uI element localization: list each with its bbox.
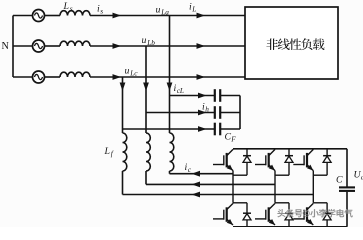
svg-text:N: N	[2, 41, 10, 52]
igbt S6 collector	[307, 203, 313, 209]
svg-text:s: s	[70, 4, 73, 13]
svg-text:L: L	[63, 1, 69, 12]
current arrow is (phase c)	[113, 74, 122, 80]
wire branch b to CF	[146, 112, 214, 114]
wire phase b: source to Ls	[45, 45, 61, 47]
igbt S4 gate bar	[223, 210, 225, 220]
wire Lf a to inverter leg 1	[169, 171, 171, 174]
wire tap phase b down	[145, 46, 147, 133]
wire branch a to CF	[170, 95, 215, 97]
diode D3 (freewheel, upper leg 3)	[326, 149, 328, 175]
igbt S1 collector	[227, 149, 233, 155]
wire dc positive rail	[233, 148, 347, 150]
igbt S2 emitter with arrow	[269, 165, 275, 171]
svg-text:h: h	[205, 104, 209, 113]
wire diode D3 to leg 3	[313, 174, 327, 176]
igbt S3 collector	[307, 149, 313, 155]
current arrow ic (line 2)	[192, 182, 201, 188]
wire dc bus below capacitor	[346, 192, 348, 227]
inductor Ls (phase a)	[60, 11, 90, 16]
wire phase a: source to Ls	[45, 15, 61, 17]
igbt S5 body bar	[268, 207, 270, 222]
inductor Lf (phase c)	[123, 133, 127, 171]
current arrow ih	[198, 110, 207, 116]
ac source Vb	[13, 45, 33, 47]
wire phase a: Ls to load box	[90, 15, 245, 17]
node N (neutral bus)	[12, 16, 14, 78]
igbt S2 gate bar	[265, 155, 267, 165]
current arrow (phase c tap)	[120, 83, 126, 92]
current arrow icL (phase a tap)	[167, 83, 173, 92]
capacitor C (dc link)	[339, 186, 355, 188]
diode D2 (freewheel, upper leg 2)	[288, 149, 290, 175]
igbt S4 emitter with arrow	[227, 219, 233, 225]
wire diode D1 to leg 1	[233, 174, 247, 176]
wire leg 1 vertical	[232, 171, 234, 203]
igbt S6 gate lead	[293, 218, 304, 220]
svg-text:Lb: Lb	[146, 38, 155, 47]
inductor Ls (phase b)	[60, 41, 90, 46]
igbt S5 collector	[269, 203, 275, 209]
igbt S3 body bar	[306, 153, 308, 168]
igbt S4 gate lead	[213, 218, 224, 220]
svg-text:La: La	[160, 8, 169, 17]
svg-text:L: L	[191, 4, 196, 13]
current arrow ic (line 1)	[192, 171, 201, 177]
diode D1 (freewheel, upper leg 1)	[246, 149, 248, 175]
svg-text:L: L	[104, 146, 110, 157]
current arrow into CF (c)	[198, 126, 207, 132]
wire phase c: source to Ls	[45, 76, 61, 78]
wire Lf b to inverter leg 2	[145, 171, 147, 184]
wire CF b to star point	[221, 112, 240, 114]
current arrow iL (phase a)	[197, 13, 206, 19]
wire leg 2 lower elbow	[275, 202, 289, 204]
svg-text:u: u	[156, 5, 161, 16]
capacitor CF (phase a)	[214, 89, 216, 102]
current arrow ic (line 3)	[192, 192, 201, 198]
wire phase b: Ls to load box	[90, 45, 245, 47]
igbt S4 collector	[227, 203, 233, 209]
igbt S1 emitter with arrow	[227, 165, 233, 171]
current arrow (phase b tap)	[143, 83, 149, 92]
current arrow iL (phase c)	[197, 74, 206, 80]
wire dc negative rail	[233, 226, 347, 228]
wire CF star point bus	[239, 96, 241, 130]
wire Lf c to inverter leg 3	[122, 171, 124, 195]
current arrow is (phase b)	[113, 43, 122, 49]
igbt S2 collector	[269, 149, 275, 155]
capacitor CF (phase b)	[214, 106, 216, 119]
wire diode D2 to leg 2	[275, 174, 289, 176]
svg-text:u: u	[142, 35, 147, 46]
diode D6 (freewheel, lower leg 3)	[326, 203, 328, 227]
diode D5 (freewheel, lower leg 2)	[288, 203, 290, 227]
igbt S6 gate bar	[303, 210, 305, 220]
igbt S3 gate bar	[303, 155, 305, 165]
svg-text:Lc: Lc	[129, 69, 138, 78]
ac source Vc	[13, 76, 33, 78]
igbt S6 body bar	[306, 207, 308, 222]
igbt S1 body bar	[226, 153, 228, 168]
svg-text:C: C	[336, 175, 343, 186]
ac source Va	[13, 15, 33, 17]
wire leg 1 lower elbow	[233, 202, 247, 204]
wire dc bus right down	[346, 149, 348, 187]
igbt S3 emitter with arrow	[307, 165, 313, 171]
wire CF c to star point	[221, 128, 240, 130]
igbt S5 gate lead	[255, 218, 266, 220]
wire leg 3 vertical	[312, 171, 314, 203]
igbt S1 gate lead	[213, 164, 224, 166]
igbt S2 gate lead	[255, 164, 266, 166]
capacitor CF (phase c)	[214, 123, 216, 136]
inductor Ls (phase c)	[60, 72, 90, 77]
current arrow is	[113, 13, 122, 19]
igbt S1 gate bar	[223, 155, 225, 165]
svg-text:F: F	[230, 135, 236, 144]
igbt S6 emitter with arrow	[307, 219, 313, 225]
wire leg 2 vertical	[274, 171, 276, 203]
igbt S4 body bar	[226, 207, 228, 222]
svg-text:cL: cL	[177, 86, 184, 95]
watermark 头条号小李学电气	[277, 209, 353, 218]
nonlinear load box	[245, 7, 338, 79]
diode D4 (freewheel, lower leg 1)	[246, 203, 248, 227]
igbt S5 emitter with arrow	[269, 219, 275, 225]
wire phase c: Ls to load box	[90, 76, 245, 78]
inductor Lf (phase a)	[170, 133, 174, 171]
wire branch c to CF	[123, 128, 215, 130]
svg-text:s: s	[100, 6, 103, 15]
label nonlinear load 非线性负载	[266, 39, 278, 51]
current arrow iL (phase b)	[197, 43, 206, 49]
igbt S3 gate lead	[293, 164, 304, 166]
current arrow into CF (a)	[198, 93, 207, 99]
wire leg 3 lower elbow	[313, 202, 327, 204]
svg-text:u: u	[125, 66, 130, 77]
igbt S2 body bar	[268, 153, 270, 168]
wire tap phase c down	[122, 77, 124, 133]
wire CF a to star point	[221, 95, 240, 97]
inductor Lf (phase b)	[146, 133, 150, 171]
wire tap phase a down	[169, 16, 171, 134]
igbt S5 gate bar	[265, 210, 267, 220]
